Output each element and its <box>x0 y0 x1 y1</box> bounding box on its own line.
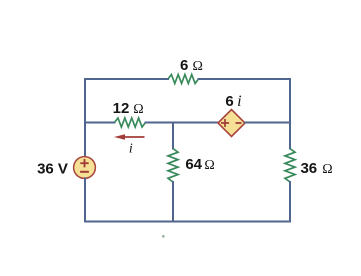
svg-text:i: i <box>237 93 241 110</box>
svg-text:Ω: Ω <box>192 59 202 74</box>
svg-text:64: 64 <box>185 156 202 173</box>
svg-text:6: 6 <box>180 57 188 74</box>
label 36 ohm value <box>300 160 332 177</box>
wire left side upper <box>84 79 86 157</box>
wire middle branch upper <box>172 123 174 149</box>
label 64 ohm value <box>185 156 214 173</box>
svg-text:Ω: Ω <box>322 162 332 177</box>
wire right side upper <box>289 79 291 149</box>
label 6 ohm value <box>180 57 203 74</box>
resistor 12 ohm zigzag <box>115 118 146 127</box>
wire bottom side <box>85 221 290 223</box>
wire top side left <box>85 78 168 80</box>
svg-text:Ω: Ω <box>204 158 214 173</box>
svg-text:i: i <box>129 141 133 156</box>
dependent source 6i <box>218 110 245 137</box>
wire middle center <box>146 122 219 124</box>
voltage source 36 V <box>74 157 96 179</box>
svg-text:36 V: 36 V <box>37 161 68 178</box>
current arrow i <box>114 134 145 140</box>
label 12 ohm value <box>113 100 144 117</box>
wire middle branch lower <box>172 182 174 222</box>
resistor 6 ohm zigzag <box>168 75 199 84</box>
wire middle right <box>245 122 290 124</box>
wire middle left <box>85 122 115 124</box>
wire right side lower <box>289 182 291 222</box>
svg-text:12: 12 <box>113 100 130 117</box>
resistor 64 ohm zigzag <box>168 149 178 183</box>
wire left side lower <box>84 178 86 221</box>
label 6i value <box>225 93 241 110</box>
wire top side right <box>199 78 291 80</box>
svg-text:36: 36 <box>300 160 317 177</box>
svg-text:Ω: Ω <box>133 102 143 117</box>
svg-text:6: 6 <box>225 93 233 110</box>
resistor 36 ohm zigzag <box>285 149 295 183</box>
stray speck <box>162 235 165 238</box>
